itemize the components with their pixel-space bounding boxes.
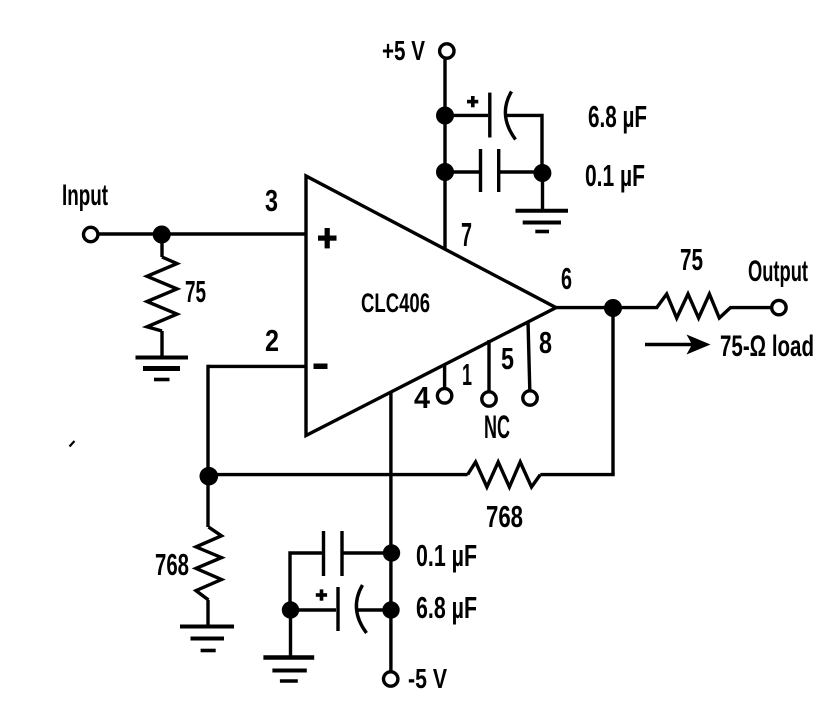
ground (V+ bypass) <box>516 211 569 232</box>
wire: pin 5 stub <box>487 340 490 391</box>
pin label 4 <box>414 380 431 415</box>
label 6.8 uF (bottom) <box>416 590 477 625</box>
resistor 75 (output series) <box>657 294 731 318</box>
wire: curved plate to right corner and down to lower junction <box>505 115 542 172</box>
capacitor 6.8uF straight plate <box>488 93 491 138</box>
label CLC406 <box>361 288 430 318</box>
output terminal (open circle) <box>772 300 786 314</box>
resistor 768 (feedback) <box>468 462 541 487</box>
pin label 6 <box>561 261 572 296</box>
wire: right plate to ground junction <box>499 170 543 173</box>
svg-text:6.8 µF: 6.8 µF <box>588 99 647 134</box>
wire: resistor 75 to ground <box>160 331 163 356</box>
op-amp U1 CLC406 (triangle body) <box>306 176 556 436</box>
node: V+ bypass junction upper <box>436 107 454 125</box>
pin label 2 <box>265 323 279 358</box>
ground (V- bypass) <box>263 658 314 682</box>
wire: V- rail between bypass junctions <box>389 553 392 610</box>
capacitor 0.1uF (ceramic, V+ bypass) plates <box>481 149 499 192</box>
wire: left plate to corner and down <box>290 553 324 610</box>
svg-text:75-Ω load: 75-Ω load <box>720 330 814 363</box>
svg-text:-5 V: -5 V <box>408 663 447 694</box>
node: V- rail junction lower (6.8uF) <box>382 601 399 618</box>
input terminal (open circle) <box>84 227 98 241</box>
wire: feedback junction down to resistor 768 <box>206 476 209 527</box>
pin 8 NC terminal (open circle) <box>523 391 537 405</box>
svg-text:0.1 µF: 0.1 µF <box>416 538 477 573</box>
stray scan mark <box>70 441 75 447</box>
+5V terminal (open circle) <box>440 44 454 58</box>
label 0.1 uF (bottom) <box>416 538 477 573</box>
label 75 (output series value) <box>680 242 703 277</box>
svg-text:768: 768 <box>486 499 523 534</box>
resistor 768 (gain set, to ground) <box>196 527 222 600</box>
svg-text:1: 1 <box>462 357 472 392</box>
svg-text:NC: NC <box>484 409 510 445</box>
wire: feedback left segment to junction <box>208 473 468 476</box>
label +5 V <box>382 35 425 66</box>
arrow: load direction <box>645 335 711 355</box>
node: V- rail junction upper (0.1uF) <box>383 544 400 561</box>
label 0.1 uF (top) <box>585 158 645 193</box>
wire: curved plate to V- rail junction <box>356 608 391 611</box>
label -5 V <box>408 663 447 694</box>
svg-text:CLC406: CLC406 <box>361 288 430 318</box>
label Input <box>62 179 108 212</box>
svg-text:2: 2 <box>265 323 279 358</box>
label Output <box>748 255 808 288</box>
wire: pin 1 stub <box>443 364 446 389</box>
wire: V- rail to -5V terminal <box>389 610 392 671</box>
svg-text:Output: Output <box>748 255 808 288</box>
svg-text:8: 8 <box>539 325 552 360</box>
wire: junction to capacitor 6.8uF plus plate <box>291 608 337 611</box>
capacitor 6.8uF curved plate (bottom) <box>356 585 366 633</box>
node: V+ bypass ground junction <box>533 164 551 182</box>
pin label 8 <box>539 325 552 360</box>
wire: pin 2 from triangle to left corner <box>208 365 307 368</box>
op-amp plus symbol (non-inverting input marker) <box>318 228 337 248</box>
wire: pin 7 up from triangle to supply <box>443 57 446 249</box>
wire: pin 8 stub <box>528 321 530 390</box>
node: V+ bypass junction lower <box>436 163 454 181</box>
label 6.8 uF (top) <box>588 99 647 134</box>
wire: corner down to feedback node <box>206 365 209 476</box>
pin label 7 <box>461 216 472 253</box>
wire: feedback right segment <box>540 473 614 476</box>
node: V- ground-side junction (6.8uF) <box>282 601 299 618</box>
svg-text:Input: Input <box>62 179 108 212</box>
resistor 75 (input termination) <box>147 257 177 331</box>
pin label 1 <box>462 357 472 392</box>
wire: output junction down to feedback wire <box>611 308 614 475</box>
wire: pin 4 down from triangle to V- rail <box>389 391 392 553</box>
wire: input terminal to pin 3 (non-inverting input) <box>99 232 306 235</box>
ground (input termination) <box>136 358 189 380</box>
svg-text:75: 75 <box>680 242 703 277</box>
pin label 3 <box>265 183 278 218</box>
svg-text:7: 7 <box>461 216 472 253</box>
capacitor 0.1uF (ceramic, V- bypass) plates <box>324 531 343 576</box>
svg-text:0.1 µF: 0.1 µF <box>585 158 645 193</box>
wire: upper junction to capacitor 6.8uF plus plate <box>445 114 488 117</box>
label 768 (gain set value) <box>155 547 189 582</box>
svg-text:6.8 µF: 6.8 µF <box>416 590 477 625</box>
wire: right plate to V- rail junction <box>342 551 392 554</box>
svg-text:75: 75 <box>185 274 206 309</box>
label 75 (input termination value) <box>185 274 206 309</box>
svg-text:5: 5 <box>501 341 514 376</box>
wire: junction to resistor 75 <box>160 238 163 257</box>
node: input junction <box>153 226 171 244</box>
wire: ground-side junction down to ground <box>289 610 292 656</box>
label NC <box>484 409 510 445</box>
pin 1 NC terminal (open circle) <box>437 389 451 403</box>
svg-text:+5 V: +5 V <box>382 35 425 66</box>
label 768 (feedback value) <box>486 499 523 534</box>
svg-text:768: 768 <box>155 547 189 582</box>
wire: pin 6 output from triangle to output terminal <box>556 306 772 309</box>
capacitor 6.8uF straight plate (bottom) <box>336 587 339 631</box>
svg-text:6: 6 <box>561 261 572 296</box>
node: feedback junction <box>200 467 219 486</box>
svg-text:3: 3 <box>265 183 278 218</box>
wire: lower junction to capacitor 0.1uF left plate <box>445 170 479 173</box>
ground (gain set resistor) <box>180 627 234 651</box>
label 75-ohm load <box>720 330 814 363</box>
-5V terminal (open circle) <box>384 672 398 686</box>
pin label 5 <box>501 341 514 376</box>
op-amp minus symbol (inverting input marker) <box>314 364 328 370</box>
capacitor 6.8uF (electrolytic, V- bypass): polarity plus sign <box>316 589 327 600</box>
capacitor 6.8uF (electrolytic, V+ bypass): polarity plus sign <box>467 96 478 107</box>
node: output junction <box>604 299 622 317</box>
capacitor 6.8uF curved plate <box>505 92 515 140</box>
wire: junction down to ground <box>541 173 544 210</box>
wire: resistor 768 to ground <box>206 600 209 626</box>
svg-text:4: 4 <box>414 380 431 415</box>
pin 5 NC terminal (open circle) <box>482 392 496 406</box>
